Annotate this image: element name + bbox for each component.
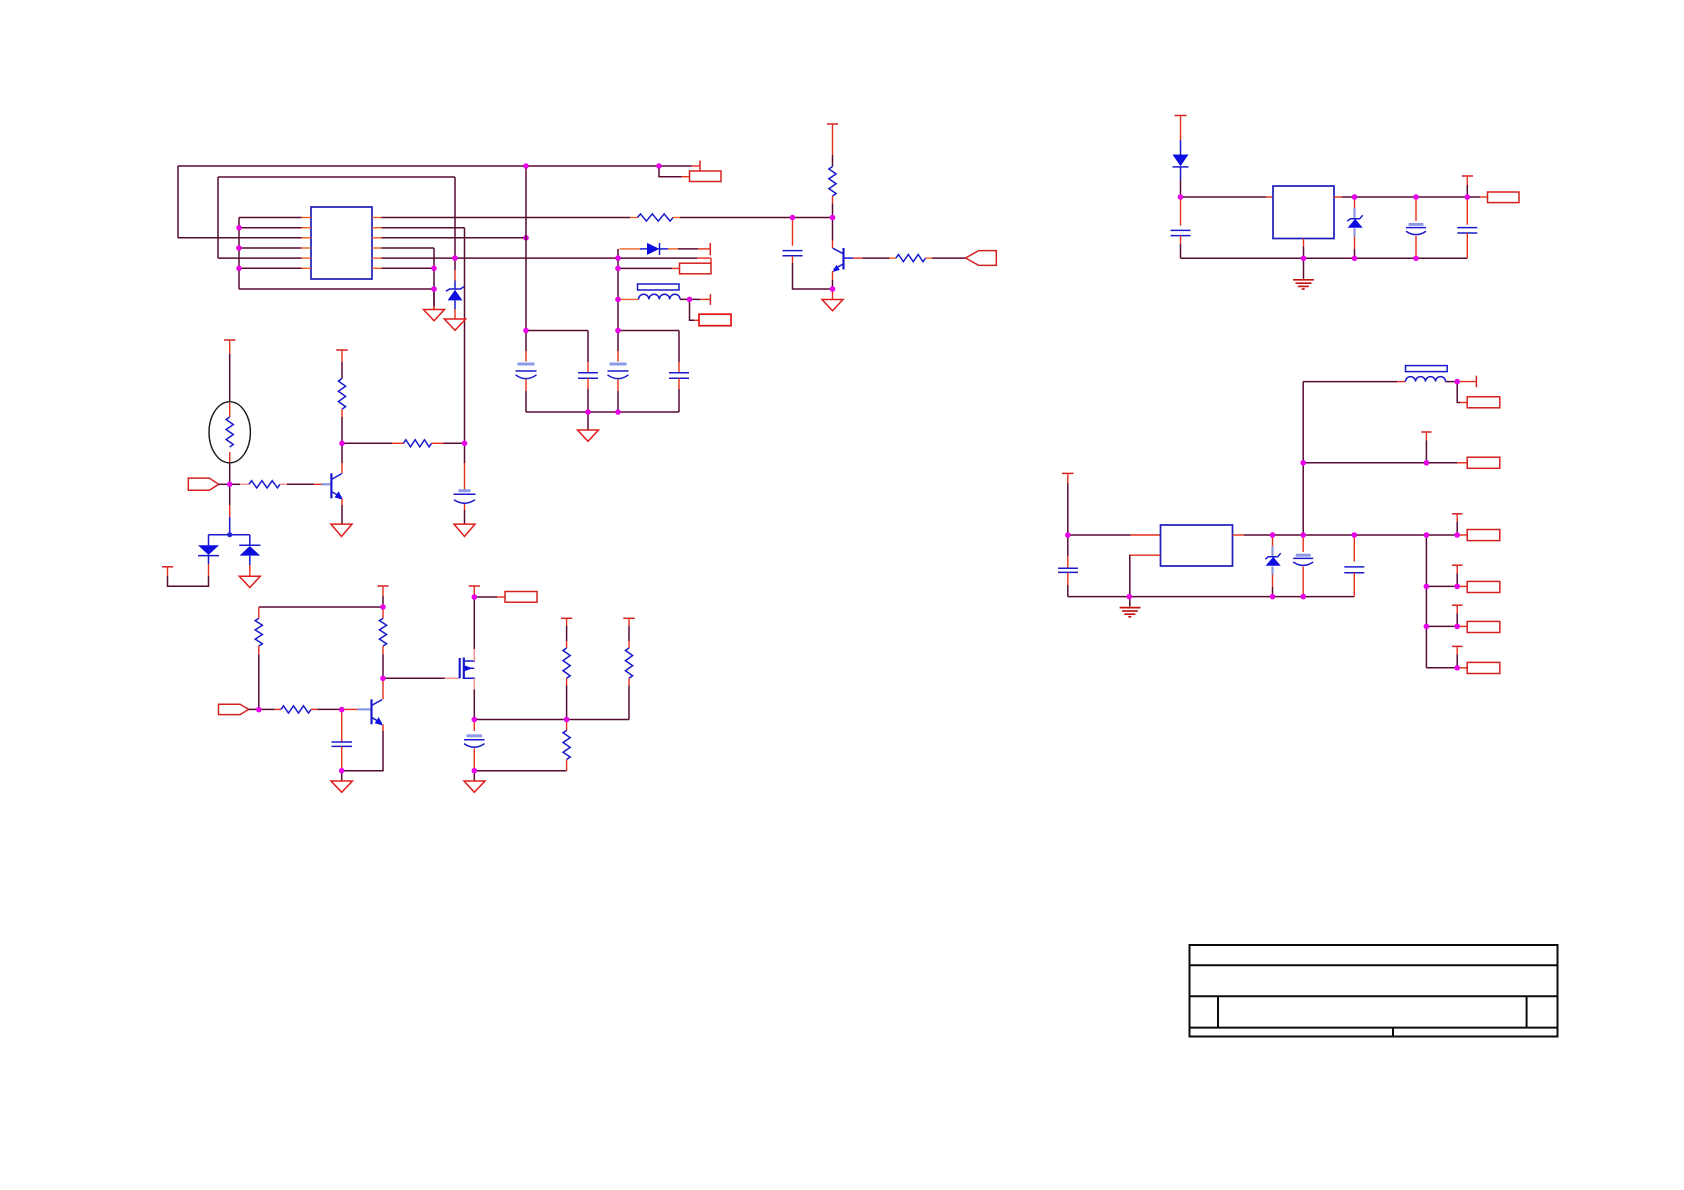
capacitor C10 [1406,197,1426,258]
connector CON2 [188,478,229,490]
MOSFET Q4 [383,597,474,720]
inductor L1 [620,294,710,299]
bottom rail MR [1068,596,1355,598]
label LBL6 [1457,382,1500,408]
row2 wire MR [1303,462,1467,464]
pin tick P13 [1475,376,1477,388]
wire row2 right [382,228,465,444]
wire row4 right [382,248,435,310]
power P15 [1452,565,1463,586]
capacitor C1 [516,331,537,413]
wire row2 left [239,227,302,229]
wire row5 right [382,257,698,259]
capacitor C9 [1171,197,1191,258]
connector column wire [1425,535,1427,668]
ground GND6 [454,524,475,536]
label LBL7 [1467,530,1500,541]
resistor R5 [230,481,332,488]
capacitor C6 [454,443,476,524]
diode D5 [620,243,710,255]
cap bank bottom rail [526,411,679,413]
regulator U2 [1273,186,1342,258]
wire row6 left [239,267,302,269]
label LBL11 [1467,662,1500,673]
capacitor C8 [464,720,485,771]
input rail MR [1068,534,1161,536]
power P4 [827,124,838,167]
big vertical wire MR [1302,382,1304,535]
pin tick P1 [692,161,701,172]
earth ground GNDE2 [1120,597,1141,617]
cap bank rail A [526,330,588,332]
capacitor C14 [1344,535,1364,597]
wire row4 left [239,247,302,249]
ground GND9 [464,771,485,793]
capacitor C2 [578,331,598,413]
resistor R6 [338,379,345,444]
capacitor C5 [783,218,833,290]
zener D7 [1265,535,1280,597]
ground GND2 [444,309,465,330]
zener D6 [1347,197,1362,258]
connector CON1 [966,251,997,266]
blue node dot [227,532,232,537]
source row wire [474,719,629,721]
photoresistor R4 circle [209,402,250,485]
capacitor C4 [669,331,689,413]
diode pair node wire [209,484,250,534]
column wire x618 [617,249,619,331]
bottom rail TR [1181,257,1468,259]
junction dots LM [227,441,467,488]
power P16 [1452,605,1463,626]
label LBL2 [618,263,711,274]
label LBL10 [1467,621,1500,632]
resistor R12 [561,618,572,719]
power P17 [1452,646,1463,667]
row5 wire MR [1426,667,1467,669]
label LBL1 [659,166,721,182]
junction dots TR [1178,194,1470,261]
power P7 [378,586,389,607]
U1 right pin stubs pins 7-12 [372,218,382,269]
resistor R13 [623,618,634,719]
capacitor C3 [608,331,629,413]
ferrite bead FB1 [638,284,680,290]
wire row5 left inner loop [218,177,455,258]
power P9 [1175,116,1187,155]
IC U1 [311,207,372,279]
power P11 [1062,473,1074,535]
diode D2 [162,535,219,587]
diode D3 [239,535,260,577]
resistor R10 [259,706,372,713]
ground rail lower-left [474,770,566,772]
wire row1 to Q1 [680,217,833,219]
title block [1190,945,1558,1037]
junction dots TQ [790,215,836,292]
top rail lower-left [259,606,383,608]
main vertical wire [525,166,527,331]
transistor Q1 [833,218,844,290]
power P8 [469,586,480,597]
resistor R8 [255,607,262,709]
capacitor C7 [332,709,353,770]
row3 wire MR [1426,585,1467,587]
diode D4 [1173,155,1189,198]
resistor R7 [342,440,465,447]
junction dots TM [523,163,692,415]
ground GND3 [578,412,599,441]
power P6 [336,350,348,379]
top rail wire net VCC [178,165,692,167]
junction dots LL [256,594,569,773]
label LBL9 [1467,581,1500,592]
wire row6 right [382,267,435,269]
capacitor C12 [1058,535,1078,597]
ground GND7 [239,576,260,587]
earth ground GNDE1 [1293,258,1314,289]
wire row3 right [382,237,527,239]
input rail TR [1181,196,1274,198]
transistor Q3 [342,678,383,770]
resistor R3 [890,255,967,262]
connector CON3 [219,704,259,714]
power P12 [1452,514,1463,535]
zener D1 [446,258,464,309]
output rail MR [1303,534,1467,536]
label LBL3 [690,299,732,325]
ground GND8 [331,771,352,793]
capacitor C11 [1457,197,1477,258]
wire row3 left outer loop [178,166,302,238]
U1 left pin stubs pins 1-6 [302,218,312,269]
pin tick P3 [709,294,711,305]
resistor R9 [379,607,386,678]
output rail TR [1342,196,1488,198]
junction dots TL [236,225,529,292]
wire row1 rail [382,217,631,219]
ground GND5 [331,524,352,536]
power P10 [1462,176,1473,197]
junction dots MR [1065,379,1460,671]
ground GND4 [822,289,843,311]
cap bank rail B [618,330,679,332]
ground GND1 [424,289,445,321]
resistor R2 [829,167,836,218]
wire row1 left [239,217,302,219]
label LBL4 [474,592,537,603]
transistor Q2 [331,443,343,524]
power P14 [1421,432,1431,463]
resistor R11 [563,720,570,771]
pin tick P2 [709,243,711,255]
resistor R1 [630,214,680,221]
Q1 base wire [844,257,890,259]
left bus wire [238,218,240,290]
bottom loop wire [239,288,434,290]
inductor L3 [1303,366,1476,382]
capacitor C13 [1293,535,1313,597]
label LBL5 [1488,192,1520,203]
label LBL8 [1467,457,1500,468]
power P5 [224,340,236,402]
regulator U3 [1130,525,1303,597]
row4 wire MR [1426,625,1467,627]
